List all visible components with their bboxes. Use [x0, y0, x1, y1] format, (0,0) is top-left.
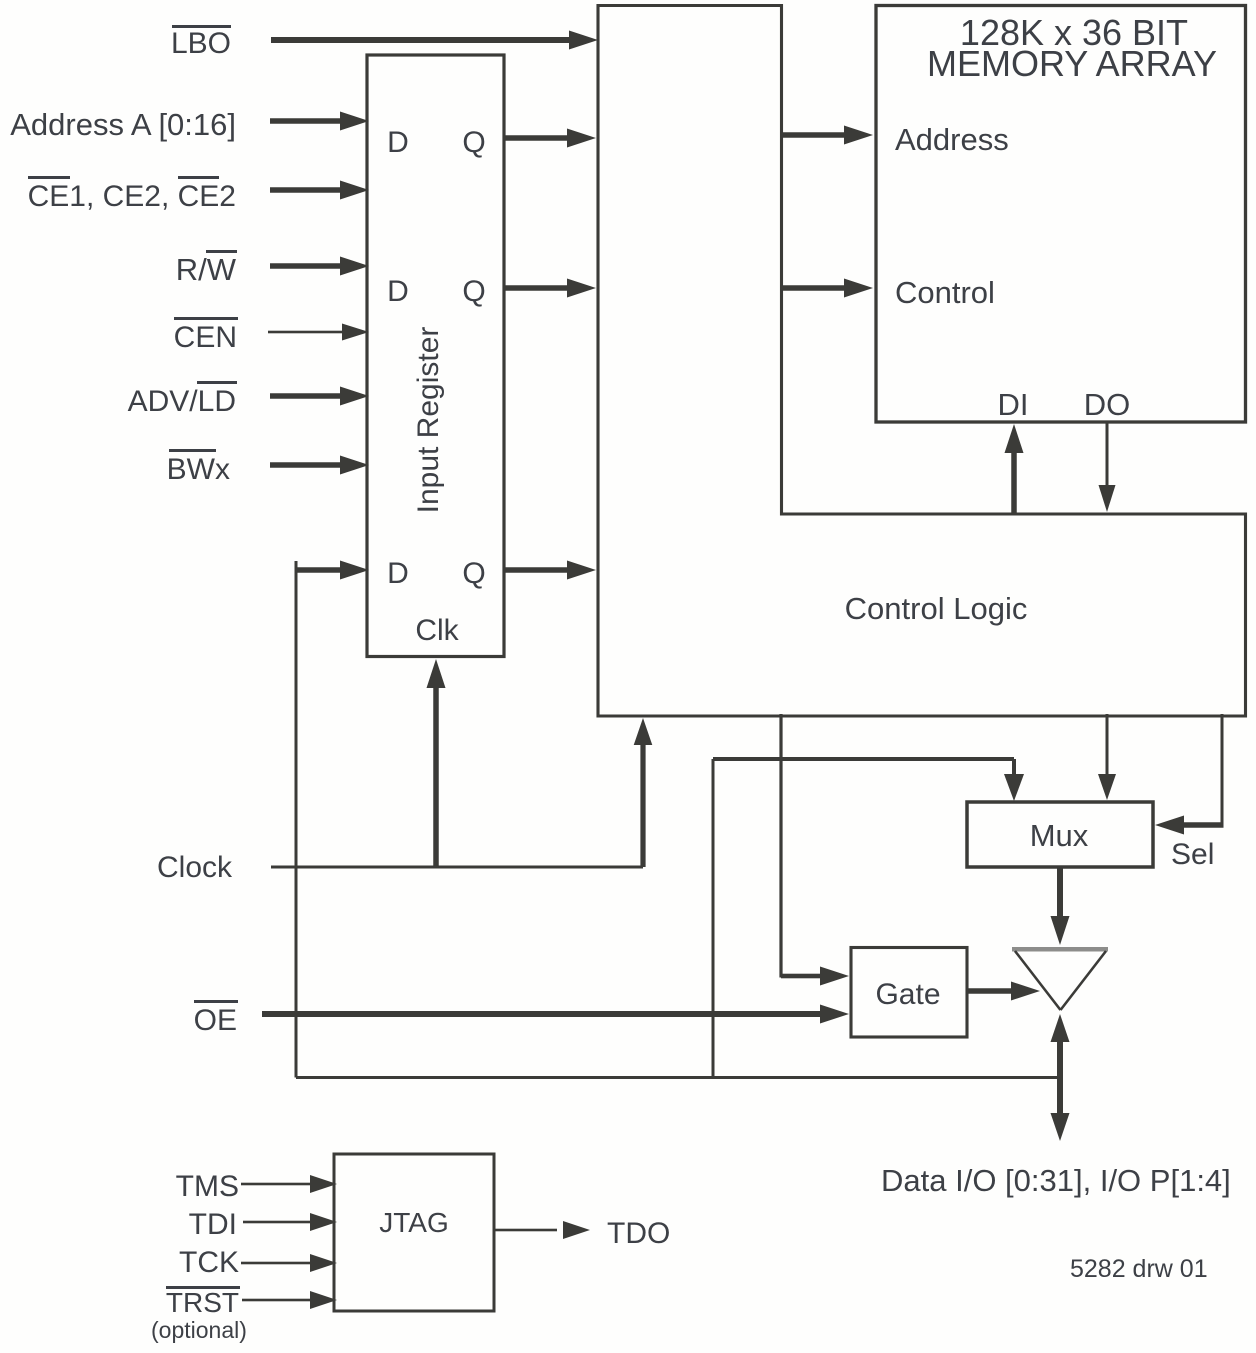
pin D row1: [387, 126, 409, 159]
svg-text:TCK: TCK: [179, 1246, 239, 1279]
svg-text:Control: Control: [895, 275, 995, 310]
label TRST (active low): [166, 1286, 240, 1318]
label BWx (byte writes): [167, 449, 230, 486]
wire feedback vertical at x=295: [295, 561, 298, 1078]
label Gate: [875, 978, 940, 1011]
wire CEN input (thin): [268, 324, 369, 341]
svg-text:LBO: LBO: [171, 27, 231, 60]
svg-text:TRST: TRST: [166, 1287, 239, 1318]
svg-text:D: D: [387, 275, 409, 308]
pin Q row2: [462, 275, 485, 308]
output buffer U7 (tri-state triangle): [1012, 947, 1108, 1010]
label Clock: [157, 851, 233, 884]
wire Control Logic to Gate input: [779, 714, 849, 986]
block U2 128K x 36 BIT MEMORY ARRAY: [876, 6, 1246, 423]
label Address A [0:16]: [10, 107, 236, 142]
wire ADV/LD input: [270, 387, 369, 406]
wire TDI input: [243, 1213, 337, 1231]
svg-text:Address A [0:16]: Address A [0:16]: [10, 107, 236, 142]
label JTAG: [379, 1207, 448, 1238]
svg-text:Data I/O [0:31], I/O P[1:4]: Data I/O [0:31], I/O P[1:4]: [881, 1163, 1231, 1198]
wire TRST input: [242, 1291, 337, 1309]
svg-text:Sel: Sel: [1171, 838, 1214, 871]
label figure number 5282 drw 01: [1070, 1255, 1208, 1283]
svg-text:D: D: [387, 557, 409, 590]
svg-text:MEMORY ARRAY: MEMORY ARRAY: [927, 43, 1217, 84]
pin Q row3: [462, 557, 485, 590]
pin Clk: [415, 614, 459, 647]
pin Address: [895, 122, 1009, 157]
block U3 Control Logic: [598, 6, 1246, 717]
svg-text:DO: DO: [1084, 387, 1131, 422]
svg-text:TDO: TDO: [607, 1217, 670, 1250]
wire Q2 to Control Logic: [504, 279, 596, 298]
svg-text:Gate: Gate: [875, 978, 940, 1011]
wire TCK input: [241, 1254, 337, 1272]
label CE1, CE2, CE2 (chip enables): [28, 176, 236, 213]
svg-text:Q: Q: [462, 126, 485, 159]
wire Data I/O bidirectional: [1051, 1014, 1070, 1141]
wire Control Logic to Mux right input: [1098, 714, 1116, 800]
wire Mux output to buffer: [1051, 867, 1070, 945]
label Input Register (vertical): [412, 327, 445, 514]
wire BWx input: [270, 456, 369, 475]
block U1 Input Register: [367, 55, 504, 657]
pin DO: [1084, 387, 1131, 422]
svg-text:Clk: Clk: [415, 614, 459, 647]
svg-text:Mux: Mux: [1030, 818, 1089, 853]
wire Control bus to memory: [782, 279, 873, 298]
svg-text:DI: DI: [998, 387, 1029, 422]
label LBO (active low): [171, 25, 231, 60]
wire Address A input: [270, 112, 369, 131]
wire R/W input: [270, 257, 369, 276]
label memory array title: [927, 12, 1217, 84]
svg-text:Q: Q: [462, 557, 485, 590]
wire Clk arrow into Input Register: [427, 659, 446, 867]
svg-text:JTAG: JTAG: [379, 1207, 448, 1238]
svg-text:Q: Q: [462, 275, 485, 308]
svg-text:(optional): (optional): [151, 1317, 247, 1343]
svg-text:TDI: TDI: [189, 1208, 237, 1241]
pin DI: [998, 387, 1029, 422]
svg-text:D: D: [387, 126, 409, 159]
block U5 Gate: [851, 948, 967, 1038]
wire feedback horizontal bus y=1077: [296, 1076, 1061, 1079]
label OE (output enable): [194, 1000, 238, 1037]
svg-text:CE1, CE2, CE2: CE1, CE2, CE2: [28, 180, 236, 213]
label TDI: [189, 1208, 237, 1241]
label Data I/O [0:31], I/O P[1:4]: [881, 1163, 1231, 1198]
svg-text:Clock: Clock: [157, 851, 233, 884]
svg-text:OE: OE: [194, 1004, 237, 1037]
wire DI (data in) arrow: [1005, 424, 1024, 514]
wire Address bus to memory: [782, 126, 873, 145]
pin Q row1: [462, 126, 485, 159]
label R/W: [176, 250, 237, 287]
wire Q1 to Control Logic: [504, 129, 596, 148]
pin D row3: [387, 557, 409, 590]
label TCK: [179, 1246, 239, 1279]
wire TDO output: [494, 1221, 590, 1239]
svg-text:5282 drw 01: 5282 drw 01: [1070, 1255, 1208, 1283]
block U6 JTAG: [334, 1154, 494, 1311]
block U4 Mux: [967, 802, 1153, 867]
pin Control: [895, 275, 995, 310]
svg-text:Input Register: Input Register: [412, 327, 445, 514]
wire Gate output to buffer: [967, 982, 1040, 1001]
label CEN (active low): [174, 317, 238, 354]
pin D row2: [387, 275, 409, 308]
wire Sel net: [1155, 714, 1224, 835]
svg-text:ADV/LD: ADV/LD: [128, 385, 236, 418]
label TMS: [176, 1170, 239, 1203]
wire feedback riser at x=713: [712, 759, 715, 1078]
label ADV/LD: [128, 381, 237, 418]
wire OE to Gate: [262, 1005, 849, 1024]
svg-text:Address: Address: [895, 122, 1009, 157]
label Control Logic: [845, 591, 1028, 626]
svg-text:Control Logic: Control Logic: [845, 591, 1028, 626]
svg-text:R/W: R/W: [176, 252, 237, 287]
label (optional): [151, 1317, 247, 1343]
wire TMS input: [241, 1175, 337, 1193]
wire LBO to Control Logic: [271, 31, 598, 50]
wire chip enable input: [270, 181, 369, 200]
svg-text:CEN: CEN: [174, 321, 237, 354]
label Mux: [1030, 818, 1089, 853]
wire feedback to Mux left input: [713, 757, 1024, 801]
svg-text:BWx: BWx: [167, 453, 230, 486]
wire feedback into D row3: [296, 561, 369, 580]
wire DO (data out) arrow: [1099, 422, 1116, 512]
label Sel: [1171, 838, 1214, 871]
label TDO: [607, 1217, 670, 1250]
wire Clock horizontal: [271, 866, 643, 869]
svg-text:TMS: TMS: [176, 1170, 239, 1203]
wire Clock arrow into Control Logic: [634, 718, 653, 867]
wire Q3 to Control Logic: [504, 561, 596, 580]
